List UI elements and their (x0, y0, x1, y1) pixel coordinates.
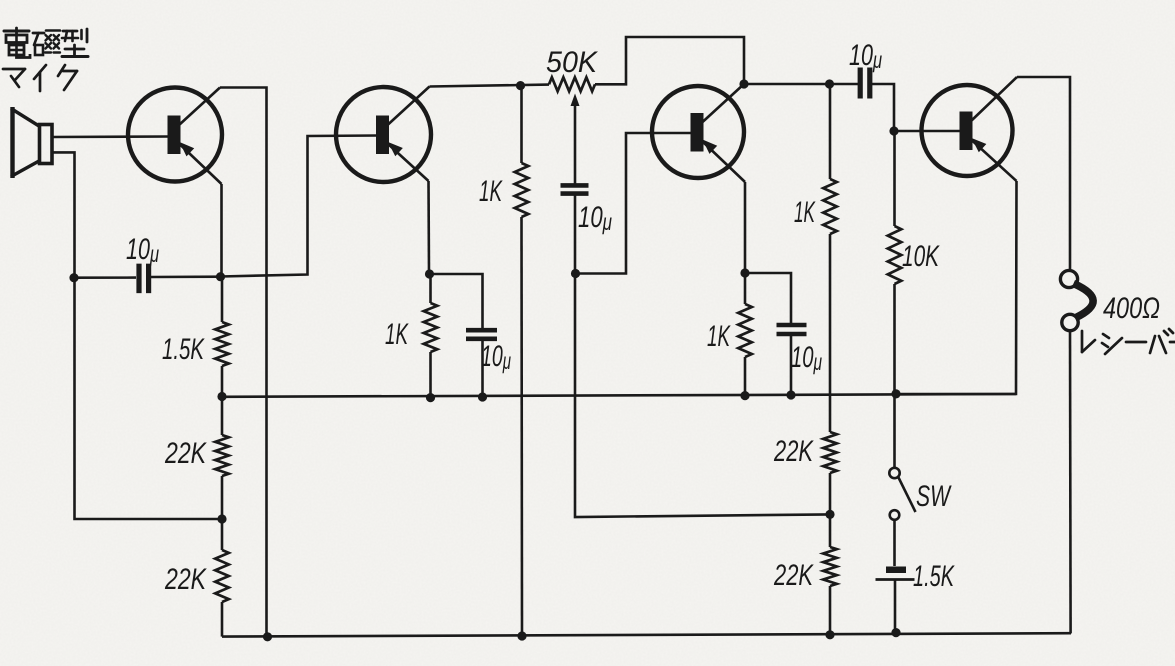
VR1 wiper arrow (571, 94, 580, 107)
svg-text:1.5K: 1.5K (913, 560, 955, 593)
wire: receiver to bottom rail (1069, 331, 1072, 634)
wire: Q2 emitter down (427, 181, 430, 274)
node: Q2 emitter junction (425, 269, 434, 278)
node: Q3 emitter junction (740, 268, 749, 277)
node: C2 at mid rail (478, 392, 487, 401)
resistor R8 22K (823, 432, 837, 473)
svg-text:22K: 22K (773, 559, 814, 592)
svg-text:1.5K: 1.5K (162, 333, 205, 366)
label 電磁型 (electromagnetic type) (4, 28, 88, 58)
label レシーバー (receiver) (1082, 329, 1175, 354)
svg-text:50K: 50K (546, 46, 599, 79)
capacitor C2 10μ (Q2 emitter bypass) (466, 328, 497, 333)
node: Q4 base (889, 126, 898, 135)
transistor Q3 (652, 84, 745, 182)
resistor R2 22K (221, 397, 224, 436)
mid supply rail (222, 394, 1016, 397)
node: C3 bottom junction (571, 269, 580, 278)
battery BT1 1.5V cell (886, 567, 906, 574)
bottom supply rail (222, 633, 1071, 636)
wire: C1 junction to Q2 base (221, 136, 379, 277)
node: R7 top (825, 79, 834, 88)
wire: junction down to SW branch (575, 274, 830, 518)
node: R5 at mid rail (426, 393, 435, 402)
node: Q2 collector / R4 top (516, 81, 525, 90)
node: Q1 collector at bottom rail (263, 632, 272, 641)
receiver T 400Ω (1060, 270, 1093, 330)
wire: junction to Q3 base (576, 133, 693, 274)
resistor R1 1.5K (221, 277, 224, 322)
microphone 電磁型マイク symbol (11, 107, 52, 178)
capacitor C5 10μ (Q3 emitter bypass) (777, 323, 807, 328)
switch SW (893, 394, 896, 468)
resistor R7 1K (Q4 base load) (829, 84, 832, 179)
node: R9 at bottom rail (825, 630, 834, 639)
svg-text:1K: 1K (385, 318, 409, 351)
node: R6 at mid rail (740, 391, 749, 400)
wire: Q3 collector node to C4 (744, 83, 858, 86)
node: SW branch at mid rail (891, 389, 900, 398)
resistor R6 1K (Q3 emitter) (744, 273, 747, 304)
wire: emitter junction to C5 (745, 273, 791, 323)
resistor R5 1K (Q2 emitter) (429, 274, 432, 303)
capacitor C1 10μ (input coupling) (74, 276, 136, 279)
node: R8/R9 junction (825, 510, 834, 519)
svg-text:22K: 22K (164, 563, 207, 596)
transistor Q2 (336, 87, 431, 183)
wire: Q1 emitter down (220, 184, 223, 277)
capacitor C4 10μ (interstage coupling) (858, 68, 863, 99)
svg-text:1K: 1K (479, 175, 503, 208)
wire: SW to battery (893, 520, 896, 566)
wire: Q2 collector to 50K (430, 85, 550, 87)
resistor R4 1K (vertical from node to bottom rail) (520, 86, 523, 163)
node: R1/R2 mid-rail junction (217, 392, 226, 401)
resistor R10 10K (893, 131, 896, 226)
transistor Q4 (922, 77, 1018, 181)
wire: Q4 collector to receiver (1017, 77, 1070, 271)
wire: mic top lead to Q1 base (51, 135, 170, 138)
label マイク (microphone) (3, 65, 77, 91)
node: C5 at mid rail (786, 390, 795, 399)
svg-text:400Ω: 400Ω (1103, 292, 1160, 325)
potentiometer VR1 50K (549, 77, 595, 91)
node: mic-side of C1 (69, 273, 78, 282)
node: Q3 collector (739, 79, 748, 88)
wire: Q3 emitter down (744, 182, 747, 273)
svg-text:22K: 22K (164, 437, 207, 470)
wire: mic bottom lead (52, 152, 222, 519)
wire: junction to C2 (430, 274, 483, 329)
wire: 50K right to top jog to Q3 collector node (595, 37, 744, 84)
transistor Q1 (128, 88, 222, 185)
capacitor C3 10μ (wiper coupling) (561, 183, 589, 188)
wire: Q1 collector to bottom rail (220, 88, 267, 638)
wire: Q4 emitter to mid rail (896, 181, 1017, 394)
node: C1 to Q1 emitter junction (216, 272, 225, 281)
resistor R3 22K (221, 519, 224, 550)
svg-text:1K: 1K (707, 320, 731, 353)
wire: C4 to Q4 base (871, 84, 894, 131)
svg-text:1K: 1K (794, 196, 816, 229)
resistor R9 22K (829, 514, 832, 547)
node: battery at bottom rail (891, 628, 900, 637)
svg-text:SW: SW (916, 480, 952, 513)
svg-text:22K: 22K (773, 435, 814, 468)
node: R4 bottom at rail (517, 631, 526, 640)
node: R2/R3 junction (217, 514, 226, 523)
svg-text:10K: 10K (902, 240, 940, 273)
